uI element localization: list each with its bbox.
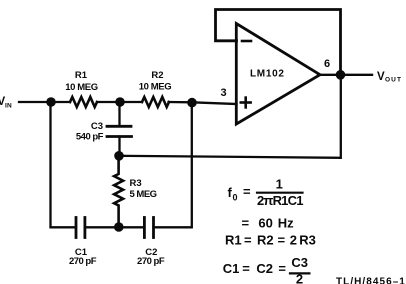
wire bootstrap output down to node D	[119, 75, 341, 158]
svg-text:10 MEG: 10 MEG	[65, 82, 97, 93]
svg-text:270 pF: 270 pF	[137, 256, 165, 267]
capacitor C1	[69, 218, 97, 268]
node VOUT output label	[377, 71, 402, 84]
node OUT junction (output / feedback / bootstrap)	[336, 70, 346, 80]
svg-text:R3: R3	[130, 178, 142, 189]
formula = 60 Hz	[242, 216, 295, 231]
resistor R3	[114, 156, 157, 227]
svg-text:C2: C2	[256, 261, 273, 276]
svg-text:Hz: Hz	[278, 216, 294, 231]
fraction bar C3/2	[290, 272, 309, 274]
capacitor C3	[76, 121, 132, 143]
svg-text:R2: R2	[257, 233, 274, 248]
capacitor C2	[137, 218, 165, 268]
svg-text:R1: R1	[225, 233, 242, 248]
svg-text:2: 2	[290, 233, 297, 248]
op-amp inverting input minus symbol	[242, 40, 251, 43]
svg-text:R1: R1	[75, 70, 88, 81]
svg-text:2πR1C1: 2πR1C1	[257, 193, 303, 208]
resistor R1	[65, 70, 97, 107]
svg-text:0: 0	[233, 193, 238, 203]
svg-text:OUT: OUT	[385, 77, 402, 84]
svg-text:10 MEG: 10 MEG	[139, 82, 171, 93]
svg-text:270 pF: 270 pF	[69, 256, 97, 267]
svg-text:=: =	[278, 261, 286, 276]
svg-text:540 pF: 540 pF	[76, 132, 104, 143]
svg-text:1: 1	[276, 177, 283, 192]
wire R2 to op-amp noninverting input	[169, 102, 237, 104]
node C junction (C1 / C2 / R3)	[114, 222, 124, 232]
wire C3 to node D	[118, 137, 120, 156]
node VIN input label	[0, 96, 12, 110]
wire op-amp output to VOUT	[318, 74, 372, 76]
formula R1 = R2 = 2 R3	[225, 233, 316, 248]
svg-text:=: =	[242, 261, 250, 276]
formula f0 = 1 / 2piR1C1	[228, 177, 304, 209]
svg-text:TL/H/8456–1: TL/H/8456–1	[336, 277, 406, 284]
svg-text:=: =	[244, 233, 252, 248]
fraction bar f0	[257, 192, 303, 194]
svg-text:R2: R2	[151, 70, 163, 81]
node D junction (C3 / R3 / bootstrap wire)	[114, 151, 124, 161]
svg-text:5 MEG: 5 MEG	[130, 189, 157, 200]
svg-text:6: 6	[324, 58, 330, 70]
svg-text:C1: C1	[223, 261, 240, 276]
svg-text:=: =	[278, 233, 286, 248]
svg-text:=: =	[242, 216, 250, 231]
op-amp noninverting input plus symbol	[241, 98, 251, 108]
wire right rail C2 to node B	[154, 102, 192, 227]
node A junction (R1 / R2 / C3)	[115, 97, 125, 107]
wire input to node A0	[19, 101, 70, 103]
svg-text:=: =	[243, 184, 251, 199]
node B junction (R2 / C2 branch / pin 3)	[187, 98, 197, 108]
svg-text:R3: R3	[299, 233, 316, 248]
svg-text:C3: C3	[291, 255, 308, 270]
wire left rail VIN branch down	[51, 102, 77, 227]
svg-text:C3: C3	[91, 121, 103, 132]
formula C1 = C2 = C3/2	[223, 255, 308, 284]
svg-text:V: V	[377, 71, 385, 83]
svg-text:60: 60	[258, 216, 272, 231]
node A0 junction (VIN / R1 / C1 branch)	[46, 97, 56, 107]
wire R1 to node A	[97, 101, 142, 103]
resistor R2	[139, 70, 171, 107]
wire C1 to node C	[85, 226, 144, 228]
wire feedback loop output to inverting input	[216, 10, 341, 76]
op-amp U1 LM102 triangle	[236, 24, 320, 125]
svg-text:3: 3	[220, 87, 226, 99]
svg-text:IN: IN	[5, 103, 12, 110]
svg-text:LM102: LM102	[250, 69, 285, 80]
wire node A down to C3	[118, 102, 120, 126]
